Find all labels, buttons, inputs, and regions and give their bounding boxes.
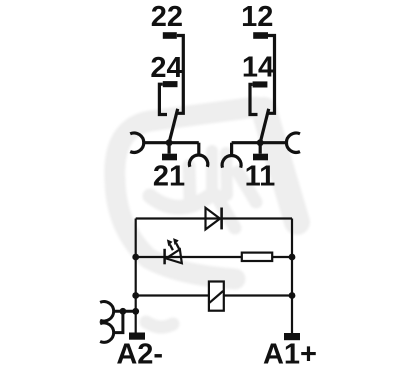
svg-text:12: 12 [241, 1, 273, 33]
svg-text:14: 14 [242, 52, 274, 84]
svg-text:21: 21 [153, 161, 185, 193]
svg-text:A1+: A1+ [263, 338, 317, 370]
svg-text:24: 24 [150, 52, 182, 84]
svg-text:11: 11 [245, 161, 276, 193]
svg-text:A2-: A2- [116, 339, 163, 371]
svg-text:22: 22 [151, 1, 183, 33]
